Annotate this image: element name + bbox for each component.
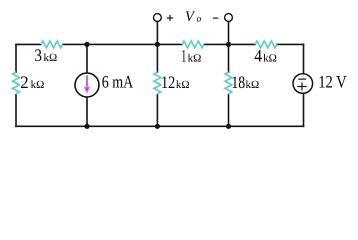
svg-text:kΩ: kΩ	[44, 52, 58, 64]
svg-text:kΩ: kΩ	[263, 53, 277, 65]
svg-text:6 mA: 6 mA	[102, 72, 134, 92]
svg-text:kΩ: kΩ	[176, 79, 190, 91]
svg-text:kΩ: kΩ	[31, 79, 45, 91]
svg-text:12: 12	[161, 72, 175, 92]
svg-text:12 V: 12 V	[318, 72, 347, 92]
svg-text:1: 1	[181, 46, 186, 66]
svg-text:18: 18	[231, 72, 245, 92]
svg-text:kΩ: kΩ	[188, 53, 202, 65]
svg-text:3: 3	[34, 45, 42, 65]
svg-text:4: 4	[254, 46, 262, 66]
svg-text:kΩ: kΩ	[246, 79, 260, 91]
svg-text:o: o	[197, 15, 202, 25]
svg-text:2: 2	[20, 72, 28, 92]
svg-text:V: V	[185, 9, 196, 25]
